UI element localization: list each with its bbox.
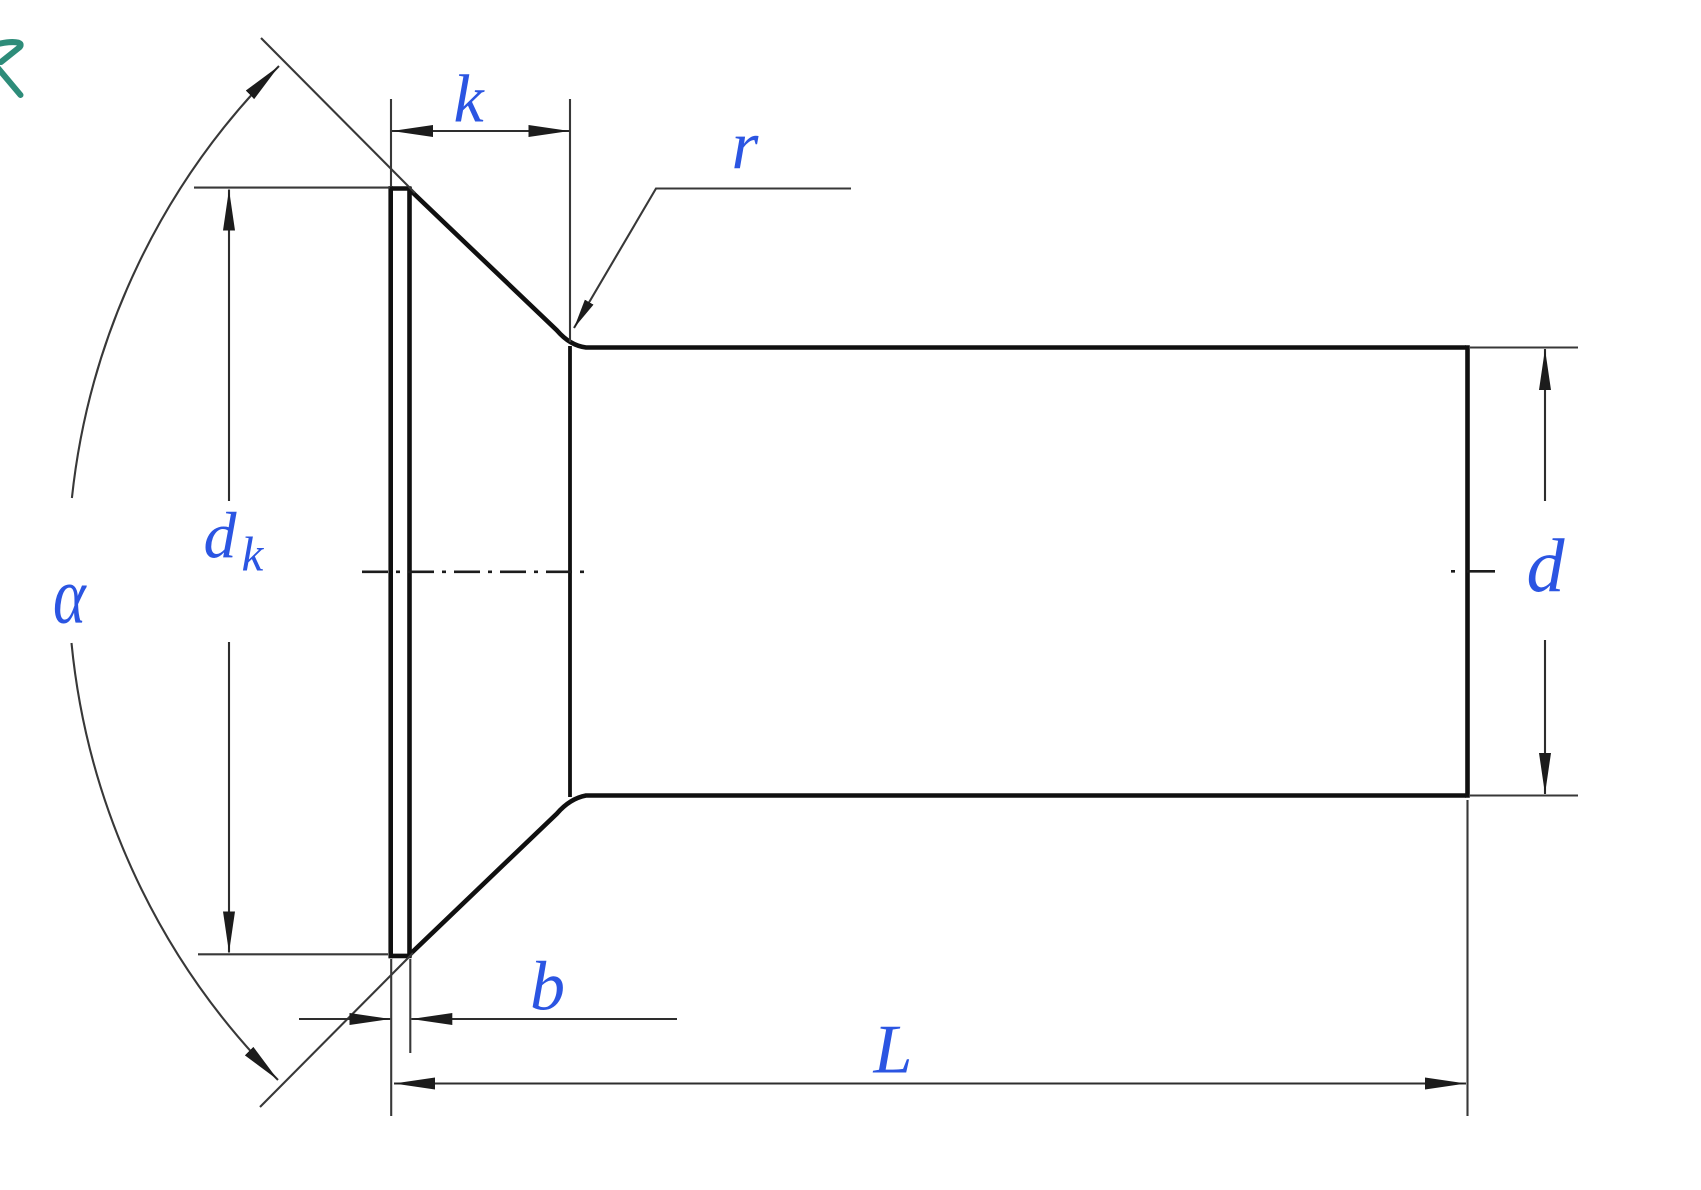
centerline (dash-dot) left portion [362, 570, 586, 573]
svg-text:d: d [1527, 524, 1566, 608]
d bottom extension line [1470, 794, 1578, 796]
L right extension line [1466, 800, 1468, 1116]
svg-text:k: k [454, 61, 486, 137]
cone bottom edge with fillet and shank bottom edge [410, 796, 1467, 955]
b dimension right arrow (outside, pointing left) [411, 1018, 677, 1020]
cone/shank junction line [568, 346, 572, 797]
angle alpha arc lower part with arrow [72, 643, 279, 1080]
r leader line with arrow [574, 189, 851, 329]
watermark logo fragment (teal), top-left corner [0, 42, 21, 95]
dk top extension line [194, 187, 390, 189]
rivet head disc right face [407, 187, 412, 958]
svg-text:α: α [53, 551, 87, 640]
angle alpha arc upper part with arrow [72, 66, 279, 498]
cone bottom surface extension line for angle [260, 953, 413, 1107]
L dimension line with arrows [394, 1082, 1466, 1084]
svg-text:k: k [242, 527, 265, 582]
head disc top cap [389, 186, 412, 191]
cone top surface extension line for angle [261, 38, 415, 193]
cone top edge with fillet r and shank top edge [410, 190, 1467, 348]
svg-text:b: b [530, 949, 565, 1026]
b dimension left arrow (outside, pointing right) [299, 1018, 390, 1020]
k right extension line [569, 99, 571, 342]
rivet head disc left face [388, 186, 393, 958]
svg-text:r: r [732, 107, 760, 183]
dk dimension line lower segment with down arrow [228, 642, 230, 953]
b right extension line [409, 959, 411, 1053]
shank right end face [1465, 345, 1470, 798]
k left extension line [390, 99, 392, 186]
d dimension line lower segment with down arrow [1544, 640, 1546, 794]
centerline dash at right end [1451, 570, 1495, 573]
dk dimension line upper segment with up arrow [228, 190, 230, 502]
svg-text:L: L [873, 1012, 913, 1089]
svg-text:d: d [204, 500, 238, 573]
d dimension line upper segment with up arrow [1544, 349, 1546, 501]
dk bottom extension line [198, 953, 388, 955]
d top extension line [1470, 346, 1578, 348]
k dimension line with arrows [392, 130, 570, 132]
head disc bottom cap [389, 954, 412, 959]
b/L shared left extension line [390, 959, 392, 1116]
